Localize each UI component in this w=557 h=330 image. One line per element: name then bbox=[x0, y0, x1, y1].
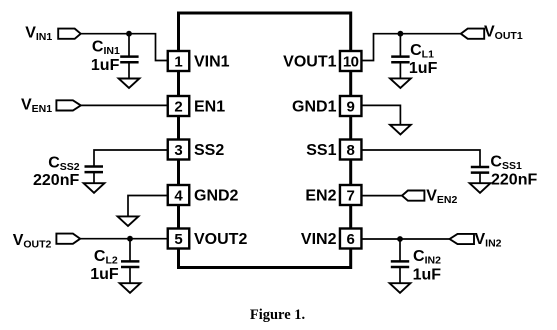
pin 7 EN2 bbox=[305, 185, 361, 205]
svg-text:1uF: 1uF bbox=[90, 266, 119, 283]
wire VEN1 to pin 2 bbox=[81, 104, 168, 106]
capacitor C_L1 1uF bbox=[391, 42, 437, 77]
capacitor C_L2 1uF bbox=[90, 248, 139, 283]
capacitor C_IN1 1uF bbox=[91, 38, 139, 74]
svg-text:SS1: SS1 bbox=[306, 142, 336, 159]
svg-text:VOUT2: VOUT2 bbox=[194, 231, 247, 248]
svg-text:EN2: EN2 bbox=[305, 188, 336, 205]
svg-text:GND2: GND2 bbox=[194, 188, 239, 205]
pin 1 VIN1 bbox=[168, 51, 230, 71]
ground under C_IN2 bbox=[390, 283, 411, 293]
wire VOUT2 terminal to pin 5 bbox=[80, 238, 168, 240]
pin 10 VOUT1 bbox=[283, 51, 361, 71]
svg-text:CIN2: CIN2 bbox=[413, 248, 441, 267]
svg-text:VIN1: VIN1 bbox=[25, 25, 52, 44]
svg-text:CL2: CL2 bbox=[94, 248, 118, 267]
svg-text:1uF: 1uF bbox=[91, 57, 120, 74]
wire C_IN1 branch bbox=[128, 34, 130, 56]
capacitor C_IN2 1uF bbox=[391, 248, 441, 284]
wire GND1 pin 9 to ground bbox=[361, 105, 400, 124]
wire SS1 pin 8 to C_SS1 bbox=[361, 150, 480, 167]
wire SS2 pin 3 to C_SS2 bbox=[94, 150, 168, 166]
ground under C_L2 bbox=[120, 283, 141, 293]
svg-text:220nF: 220nF bbox=[491, 172, 537, 189]
terminal V_EN2 bbox=[402, 187, 457, 206]
ground under C_SS2 bbox=[84, 183, 105, 193]
svg-text:7: 7 bbox=[347, 187, 355, 204]
pin 4 GND2 bbox=[168, 185, 239, 205]
svg-text:VOUT1: VOUT1 bbox=[283, 54, 336, 71]
svg-text:3: 3 bbox=[174, 142, 182, 159]
pin 6 VIN2 bbox=[301, 229, 362, 249]
capacitor C_SS2 220nF bbox=[33, 155, 103, 190]
ground under GND1 bbox=[390, 125, 411, 135]
svg-text:10: 10 bbox=[343, 53, 359, 70]
svg-text:EN1: EN1 bbox=[194, 99, 225, 116]
wire C_L1 to ground bbox=[399, 62, 401, 78]
svg-text:2: 2 bbox=[174, 98, 182, 115]
wire EN2 pin 7 to terminal bbox=[361, 195, 402, 197]
svg-text:CSS1: CSS1 bbox=[490, 153, 522, 172]
pin 5 VOUT2 bbox=[168, 229, 248, 249]
svg-text:SS2: SS2 bbox=[194, 142, 224, 159]
svg-text:8: 8 bbox=[347, 142, 355, 159]
svg-text:VEN1: VEN1 bbox=[21, 97, 52, 116]
IC body U1 bbox=[179, 13, 351, 268]
node junction dot at VOUT1 bbox=[398, 31, 404, 37]
svg-text:VIN2: VIN2 bbox=[475, 231, 502, 250]
svg-text:1uF: 1uF bbox=[409, 60, 438, 77]
node junction dot at VOUT2 bbox=[127, 236, 133, 242]
wire C_L2 to ground bbox=[129, 267, 131, 283]
svg-text:GND1: GND1 bbox=[292, 99, 337, 116]
terminal V_EN1 bbox=[21, 97, 81, 116]
wire C_IN1 to ground bbox=[128, 62, 130, 78]
ground under C_IN1 bbox=[119, 79, 140, 89]
ground under C_L1 bbox=[390, 78, 411, 88]
svg-text:VIN2: VIN2 bbox=[301, 231, 337, 248]
svg-text:1: 1 bbox=[174, 53, 182, 70]
terminal V_OUT1 bbox=[461, 23, 523, 42]
node junction dot at VIN2 bbox=[397, 236, 403, 242]
svg-text:CIN1: CIN1 bbox=[92, 38, 120, 57]
pin 8 SS1 bbox=[306, 140, 361, 160]
terminal V_IN2 bbox=[450, 231, 502, 250]
wire C_L2 branch bbox=[129, 239, 131, 261]
wire VOUT1 pin 10 to terminal bbox=[361, 34, 461, 61]
wire VIN2 pin 6 to terminal bbox=[361, 238, 449, 240]
svg-text:1uF: 1uF bbox=[413, 267, 442, 284]
svg-text:4: 4 bbox=[174, 187, 183, 204]
caption Figure 1. bbox=[250, 307, 305, 323]
node junction dot at VIN1 bbox=[126, 31, 132, 37]
capacitor C_SS1 220nF bbox=[471, 153, 538, 188]
svg-text:CSS2: CSS2 bbox=[48, 155, 80, 174]
pin 2 EN1 bbox=[168, 96, 225, 116]
wire GND2 pin 4 to ground bbox=[128, 196, 168, 217]
wire C_IN2 branch bbox=[399, 239, 401, 261]
svg-text:Figure 1.: Figure 1. bbox=[250, 307, 305, 323]
pin 3 SS2 bbox=[168, 140, 225, 160]
ground under C_SS1 bbox=[470, 183, 491, 193]
svg-text:VEN2: VEN2 bbox=[426, 187, 457, 206]
svg-text:VOUT2: VOUT2 bbox=[13, 232, 52, 251]
svg-text:VIN1: VIN1 bbox=[194, 54, 230, 71]
wire VIN1 input: terminal to pin 1 bbox=[81, 34, 168, 61]
wire C_IN2 to ground bbox=[399, 267, 401, 283]
svg-text:9: 9 bbox=[347, 98, 355, 115]
wire C_L1 branch bbox=[399, 34, 401, 56]
svg-text:VOUT1: VOUT1 bbox=[484, 23, 523, 42]
wire C_SS2 to ground bbox=[93, 172, 95, 183]
svg-text:6: 6 bbox=[347, 231, 355, 248]
svg-text:CL1: CL1 bbox=[410, 42, 434, 61]
pin 9 GND1 bbox=[292, 96, 361, 116]
terminal V_OUT2 bbox=[13, 232, 81, 251]
terminal V_IN1 bbox=[25, 25, 80, 44]
wire C_SS1 to ground bbox=[479, 173, 481, 184]
svg-text:220nF: 220nF bbox=[33, 172, 79, 189]
ground under GND2 bbox=[118, 216, 139, 226]
svg-text:5: 5 bbox=[174, 231, 182, 248]
